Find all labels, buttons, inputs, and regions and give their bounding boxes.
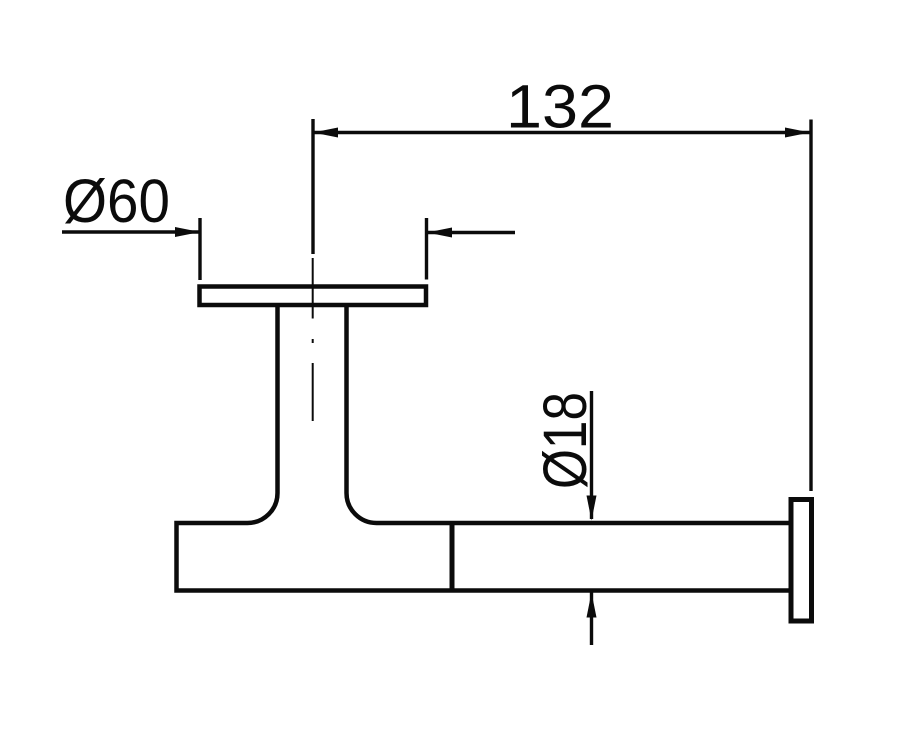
svg-text:132: 132: [506, 73, 614, 141]
svg-text:Ø18: Ø18: [531, 392, 599, 489]
svg-text:Ø60: Ø60: [63, 167, 170, 235]
